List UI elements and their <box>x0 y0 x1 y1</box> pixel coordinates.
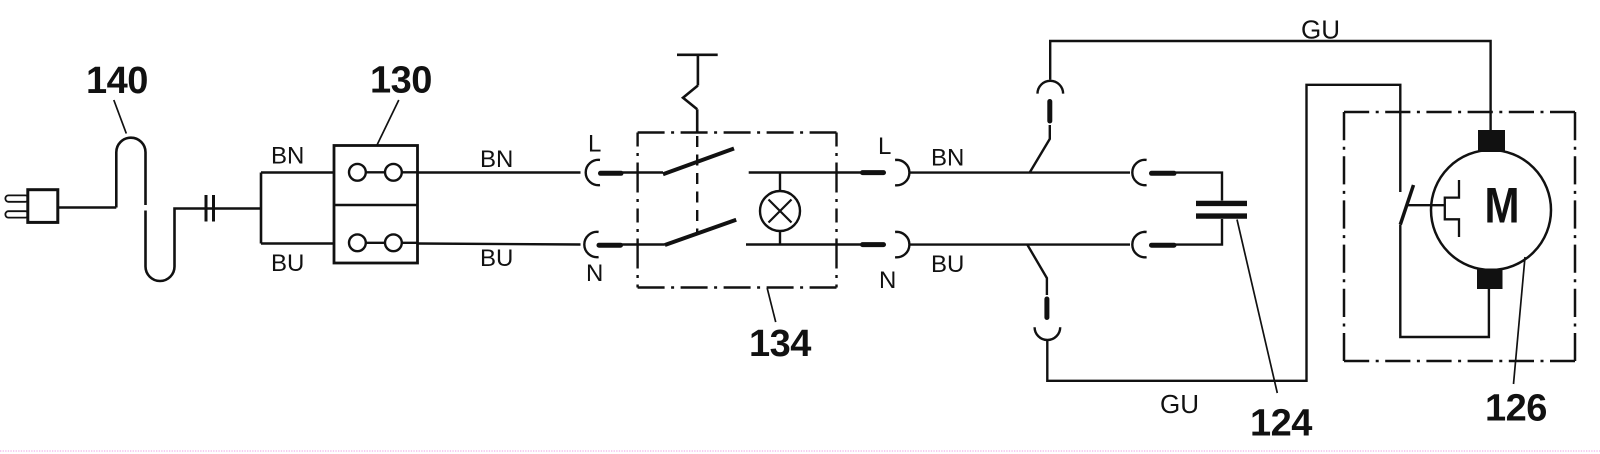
cord 140 loop upper <box>116 138 145 208</box>
thermal switch S2 blade <box>1400 185 1413 225</box>
wire BN block to connector L <box>402 171 581 174</box>
svg-text:BN: BN <box>271 143 304 170</box>
indicator lamp E1 body <box>760 191 800 231</box>
wire riser to GU top <box>1030 125 1050 173</box>
terminal block 130 divider <box>334 204 418 206</box>
wire X2 top to capacitor <box>1174 173 1222 201</box>
leader line 126 <box>1514 257 1526 384</box>
capacitor 124 plate bottom <box>1196 213 1247 218</box>
wire BN bracket to block <box>261 171 349 173</box>
connector socket GU bottom <box>1035 327 1061 340</box>
connector socket GU top <box>1038 81 1064 94</box>
svg-text:BU: BU <box>931 251 964 278</box>
wire GU top bus <box>1050 41 1490 130</box>
connector pin X2 top <box>1152 171 1175 176</box>
terminal block 130 contact circle A2 <box>385 164 402 181</box>
switch S1 pole N output wire <box>746 243 862 245</box>
svg-text:N: N <box>586 260 603 287</box>
leader line 130 <box>376 100 399 147</box>
connector pin X2 bottom <box>1152 243 1175 248</box>
pushbutton actuator spring kink <box>683 86 698 110</box>
switch S1 pole N blade <box>665 220 736 245</box>
svg-text:M: M <box>1485 178 1520 234</box>
capacitor 124 plate top <box>1196 201 1247 206</box>
plug P1 prong bottom <box>5 211 28 217</box>
connector socket L2 <box>895 160 909 185</box>
wire thermal switch to bottom terminal <box>1400 225 1489 337</box>
switch unit 134 boundary right <box>835 133 837 288</box>
svg-text:BU: BU <box>480 245 513 272</box>
switch S1 pole L output wire <box>749 171 862 173</box>
switch unit 134 boundary left <box>636 133 638 288</box>
wire X2 bottom to capacitor <box>1174 219 1222 245</box>
svg-text:134: 134 <box>749 323 811 365</box>
wire plug to cord loop <box>58 206 117 208</box>
motor unit 126 boundary left <box>1343 112 1346 361</box>
motor brush feed <box>1408 204 1445 206</box>
terminal block 130 contact circle A1 <box>349 164 366 181</box>
svg-text:L: L <box>588 131 601 158</box>
svg-text:126: 126 <box>1485 388 1547 430</box>
plug P1 body <box>28 190 58 223</box>
motor commutator meander <box>1445 180 1459 237</box>
terminal block 130 contact circle B1 <box>349 234 366 251</box>
wire L2 onward <box>909 171 1130 173</box>
connector pin N2 <box>863 242 884 247</box>
wire N2 onward <box>909 243 1130 245</box>
wire BU bracket to block <box>261 242 349 244</box>
wire GU bottom bus <box>1047 85 1400 381</box>
plug P1 prong top <box>5 195 28 201</box>
svg-text:L: L <box>878 133 891 160</box>
switch unit 134 boundary top <box>638 131 837 133</box>
connector socket X2 bottom <box>1132 232 1146 257</box>
wire L into switch box <box>621 171 663 173</box>
motor terminal top <box>1478 130 1505 152</box>
indicator lamp E1 stub top <box>779 173 781 192</box>
switch unit 134 boundary bottom <box>638 286 837 288</box>
svg-text:GU: GU <box>1301 15 1340 45</box>
terminal block 130 body <box>334 146 418 264</box>
indicator lamp E1 cross <box>769 200 792 223</box>
leader line 134 <box>767 288 776 322</box>
motor unit 126 boundary top <box>1344 111 1575 114</box>
wire N into switch box <box>621 243 665 245</box>
connector pin L <box>601 171 622 176</box>
pushbutton actuator stem <box>697 55 700 86</box>
connector socket N2 <box>895 232 909 257</box>
connector socket N <box>584 232 598 257</box>
terminal block 130 link bottom <box>366 242 385 244</box>
svg-text:GU: GU <box>1160 389 1199 419</box>
cord 140 loop lower <box>146 209 262 282</box>
connector pin GU top <box>1047 102 1052 122</box>
svg-text:140: 140 <box>86 60 148 102</box>
motor M body <box>1431 150 1551 270</box>
connector socket X2 top <box>1132 160 1146 185</box>
cord break mark bar 2 <box>212 195 215 222</box>
svg-text:124: 124 <box>1250 403 1312 445</box>
junction bracket at cord split <box>260 173 263 244</box>
pink dotted margin line <box>0 450 1600 452</box>
motor unit 126 boundary bottom <box>1344 360 1575 363</box>
wire BU block to connector N <box>402 243 581 245</box>
svg-text:130: 130 <box>370 60 432 102</box>
pushbutton actuator bar <box>677 53 718 56</box>
wire drop to GU bottom <box>1027 245 1047 296</box>
cord break mark bar 1 <box>205 195 208 222</box>
terminal block 130 contact circle B2 <box>385 234 402 251</box>
switch S1 pole L blade <box>663 149 734 175</box>
connector pin N <box>599 243 621 248</box>
motor unit 126 boundary right <box>1574 112 1577 361</box>
svg-text:BU: BU <box>271 250 304 277</box>
leader line 124 <box>1237 220 1277 394</box>
connector pin GU bottom <box>1044 299 1049 318</box>
motor terminal bottom <box>1477 269 1503 290</box>
svg-text:N: N <box>879 267 896 294</box>
connector socket L <box>586 160 600 185</box>
svg-text:BN: BN <box>931 145 964 172</box>
terminal block 130 link top <box>366 171 385 173</box>
pushbutton actuator stem lower <box>696 109 699 131</box>
svg-text:BN: BN <box>480 146 513 173</box>
leader line 140 <box>114 100 127 134</box>
indicator lamp E1 stub bottom <box>779 231 781 245</box>
connector pin L2 <box>863 170 884 175</box>
mechanical link dashed <box>696 136 698 233</box>
